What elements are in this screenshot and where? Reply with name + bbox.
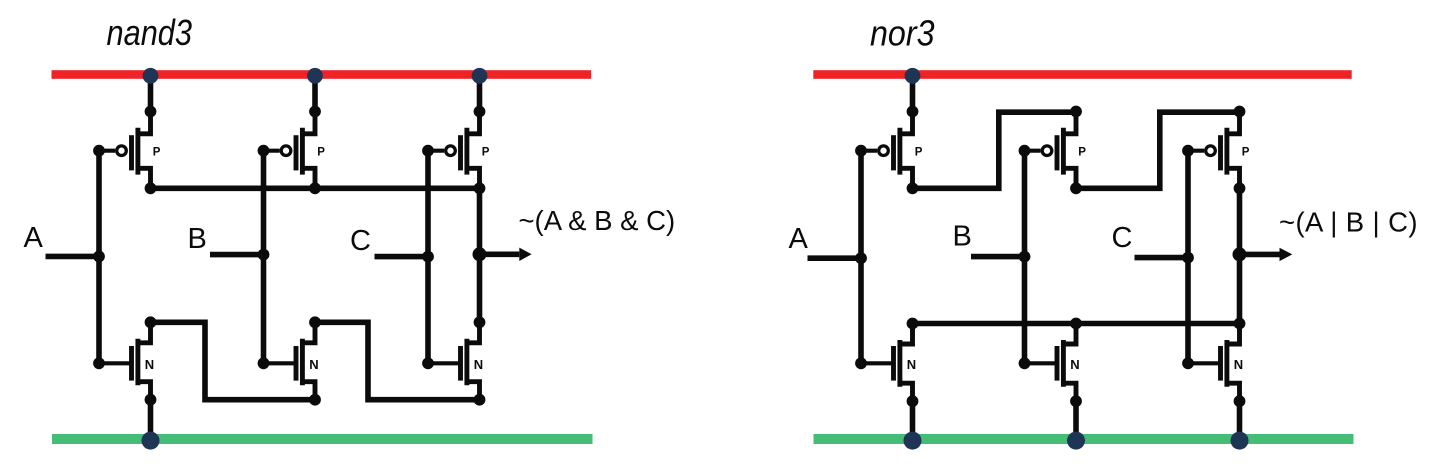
wire output node vertical (nor3) (1237, 188, 1243, 323)
svg-text:B: B (188, 223, 207, 255)
pmos transistor M3P (gate C, nand3) (422, 106, 490, 195)
svg-text:P: P (153, 146, 161, 158)
pmos transistor M6P (gate C, nor3) (1182, 106, 1250, 195)
svg-text:N: N (907, 357, 916, 372)
wire output arrow shaft (nand3) (480, 252, 520, 258)
wire VDD to M1P source (148, 75, 154, 112)
wire M2N drain to M3N source (nand3) (315, 322, 480, 399)
svg-text:N: N (474, 357, 483, 372)
svg-text:~(A | B | C): ~(A | B | C) (1279, 207, 1418, 238)
node C junction dot (nand3) (422, 251, 434, 263)
node C junction dot (nor3) (1182, 252, 1194, 264)
VDD junction dot (nor3) (905, 68, 921, 84)
nmos transistor M2N (gate B, nand3) (258, 316, 321, 405)
svg-text:P: P (482, 146, 490, 158)
GND junction dot 2 (nor3) (1067, 432, 1085, 450)
wire M6N source to GND (nor3) (1237, 401, 1243, 440)
output arrowhead (nand3) (519, 248, 531, 261)
nmos transistor M3N (gate C, nand3) (422, 316, 485, 405)
svg-text:P: P (915, 146, 923, 158)
wire M1N source to GND (nand3) (148, 400, 154, 441)
svg-text:C: C (1112, 222, 1133, 254)
svg-text:N: N (1234, 357, 1243, 372)
GND rail (nor3) (814, 434, 1354, 444)
GND rail (nand3) (52, 434, 593, 444)
GND junction dot 1 (nor3) (904, 432, 922, 450)
nmos transistor M5N (gate B, nor3) (1019, 318, 1082, 408)
wire input C vertical (nor3) (1185, 151, 1191, 364)
wire input C vertical (nand3) (425, 151, 431, 364)
output arrowhead (nor3) (1280, 248, 1293, 261)
pmos transistor M1P (gate A, nand3) (93, 106, 161, 195)
svg-text:N: N (1070, 357, 1079, 372)
node B junction dot (nand3) (258, 249, 270, 261)
svg-text:P: P (1078, 146, 1086, 158)
svg-text:B: B (953, 221, 972, 253)
pmos transistor M4P (gate A, nor3) (855, 106, 923, 195)
svg-text:N: N (145, 357, 154, 372)
wire input B lead (nor3) (971, 254, 1025, 260)
svg-text:P: P (1242, 146, 1250, 158)
GND junction dot 3 (nor3) (1231, 432, 1249, 450)
node B junction dot (nor3) (1019, 251, 1031, 263)
VDD rail (nand3) (52, 70, 592, 79)
svg-text:N: N (309, 357, 318, 372)
wire NMOS drain bus / output node (nor3) (913, 321, 1240, 327)
pmos transistor M5P (gate B, nor3) (1019, 106, 1087, 195)
wire output arrow shaft (nor3) (1240, 252, 1280, 258)
wire input B vertical (nand3) (261, 151, 267, 364)
wire M1N drain to M2N source (nand3) (151, 322, 316, 399)
wire input A lead (nor3) (808, 255, 862, 261)
svg-text:nor3: nor3 (870, 12, 935, 53)
node output junction dot (nand3) (473, 247, 487, 261)
wire input A vertical (nor3) (858, 151, 864, 364)
wire input A lead (nand3) (46, 254, 100, 260)
wire M4P drain to M5P source (nor3) (913, 112, 1077, 188)
svg-text:C: C (350, 225, 371, 257)
svg-text:~(A & B & C): ~(A & B & C) (519, 205, 676, 236)
VDD junction dot 2 (nand3) (307, 68, 323, 84)
svg-text:P: P (317, 146, 325, 158)
wire input B vertical (nor3) (1022, 151, 1028, 364)
svg-text:A: A (789, 223, 809, 255)
wire M4N source to GND (nor3) (910, 401, 916, 440)
wire output node vertical (nand3) (477, 188, 483, 322)
wire input B lead (nand3) (210, 252, 264, 258)
wire input C lead (nor3) (1135, 255, 1189, 261)
node output junction dot (nor3) (1233, 247, 1247, 261)
wire VDD to M1P source (nor3) (910, 75, 916, 112)
VDD rail (nor3) (813, 70, 1351, 79)
svg-text:A: A (24, 222, 44, 254)
wire input C lead (nand3) (375, 254, 429, 260)
VDD junction dot 1 (nand3) (143, 68, 159, 84)
nmos transistor M6N (gate C, nor3) (1182, 318, 1245, 408)
nmos transistor M1N (gate A, nand3) (93, 316, 156, 405)
wire VDD to M3P source (477, 75, 483, 112)
node A junction dot (nand3) (93, 251, 105, 263)
wire output node: PMOS drain bus (nand3) (151, 186, 480, 192)
node A junction dot (nor3) (855, 252, 867, 264)
wire input A vertical (nand3) (96, 151, 102, 364)
svg-text:nand3: nand3 (107, 12, 193, 53)
GND junction dot (nand3) (142, 432, 160, 450)
pmos transistor M2P (gate B, nand3) (258, 106, 326, 195)
VDD junction dot 3 (nand3) (472, 68, 488, 84)
nmos transistor M4N (gate A, nor3) (855, 318, 918, 408)
wire M5P drain to M6P source (nor3) (1076, 112, 1240, 188)
wire VDD to M2P source (312, 75, 318, 112)
wire M5N source to GND (nor3) (1073, 401, 1079, 440)
